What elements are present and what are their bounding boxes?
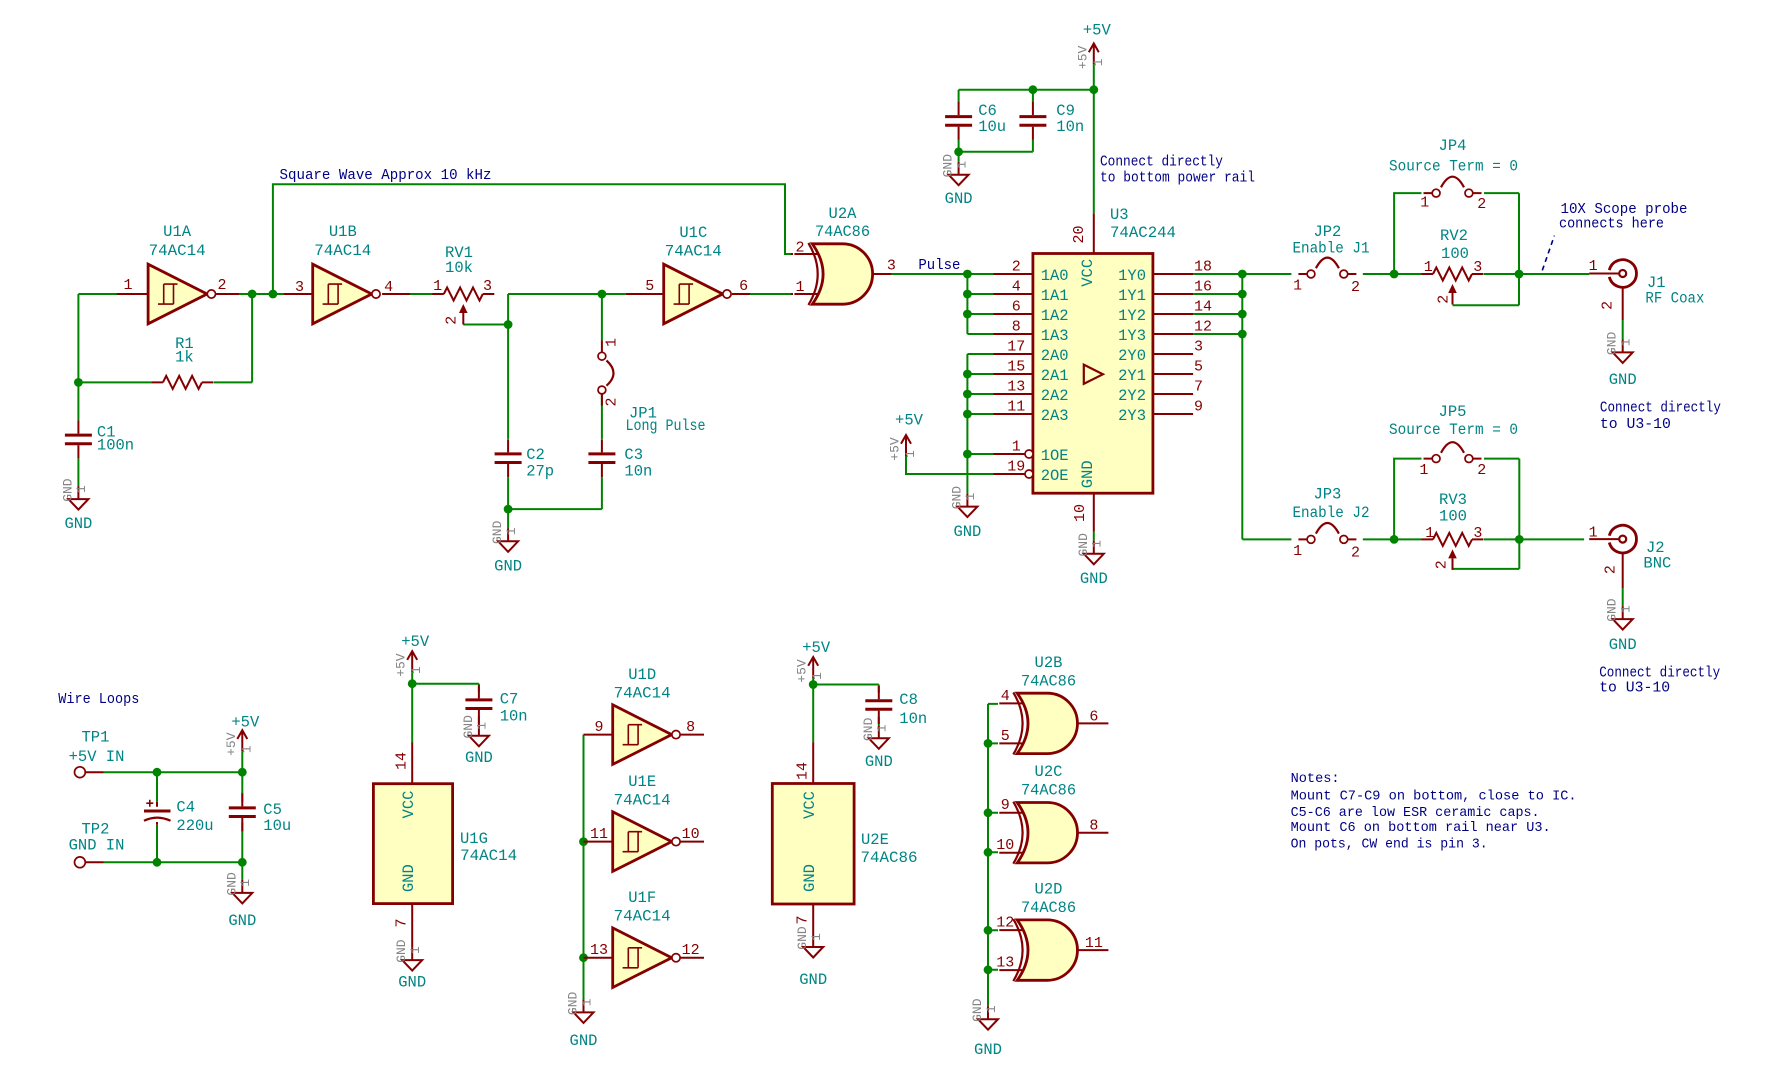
- svg-text:U3: U3: [1110, 206, 1129, 224]
- svg-text:U2B: U2B: [1035, 654, 1063, 672]
- svg-text:Pulse: Pulse: [918, 257, 960, 274]
- svg-text:13: 13: [590, 942, 608, 959]
- svg-text:GND: GND: [795, 926, 810, 950]
- svg-text:1: 1: [1293, 543, 1302, 560]
- svg-text:1: 1: [1589, 525, 1598, 542]
- svg-text:10k: 10k: [445, 259, 473, 277]
- svg-text:2: 2: [604, 397, 621, 406]
- svg-text:Mount C7-C9 on bottom, close t: Mount C7-C9 on bottom, close to IC.: [1291, 788, 1577, 804]
- svg-text:1: 1: [1619, 338, 1634, 346]
- svg-text:Mount C6 on bottom rail near U: Mount C6 on bottom rail near U3.: [1291, 820, 1551, 836]
- svg-text:U1C: U1C: [679, 224, 707, 242]
- svg-text:2: 2: [1351, 545, 1360, 562]
- svg-text:connects here: connects here: [1559, 215, 1664, 232]
- svg-text:10n: 10n: [1056, 118, 1084, 136]
- svg-text:7: 7: [795, 915, 812, 924]
- svg-text:3: 3: [1473, 525, 1482, 542]
- svg-text:100: 100: [1439, 508, 1467, 526]
- svg-text:Connect directly: Connect directly: [1100, 154, 1223, 171]
- svg-text:1: 1: [963, 493, 978, 501]
- svg-text:C7: C7: [500, 691, 519, 709]
- svg-text:1: 1: [1589, 258, 1598, 275]
- svg-text:20: 20: [1071, 225, 1088, 243]
- svg-text:1: 1: [984, 1005, 999, 1013]
- svg-text:1: 1: [433, 278, 442, 295]
- svg-text:13: 13: [1007, 379, 1025, 396]
- svg-text:GND: GND: [799, 971, 827, 989]
- svg-text:U1D: U1D: [628, 666, 656, 684]
- svg-text:17: 17: [1007, 339, 1025, 356]
- svg-text:GND: GND: [949, 486, 964, 510]
- svg-text:1: 1: [1419, 462, 1428, 479]
- svg-text:VCC: VCC: [400, 791, 418, 819]
- svg-text:1A2: 1A2: [1041, 307, 1069, 325]
- svg-text:3: 3: [1194, 339, 1203, 356]
- svg-text:GND: GND: [394, 939, 409, 963]
- svg-text:2OE: 2OE: [1041, 467, 1069, 485]
- svg-text:2A2: 2A2: [1041, 387, 1069, 405]
- svg-text:4: 4: [384, 279, 393, 296]
- svg-text:GND: GND: [1605, 598, 1620, 622]
- svg-text:2: 2: [217, 277, 226, 294]
- svg-text:GND: GND: [865, 753, 893, 771]
- svg-text:C5-C6 are low ESR ceramic caps: C5-C6 are low ESR ceramic caps.: [1291, 805, 1540, 821]
- svg-text:to U3-10: to U3-10: [1600, 416, 1671, 433]
- svg-text:1: 1: [409, 666, 424, 674]
- svg-text:+5V IN: +5V IN: [69, 748, 125, 766]
- svg-text:+5V: +5V: [401, 633, 430, 651]
- svg-text:10u: 10u: [263, 817, 291, 835]
- svg-text:GND: GND: [945, 190, 973, 208]
- svg-text:1: 1: [604, 338, 621, 347]
- svg-text:+5V: +5V: [895, 412, 924, 430]
- svg-text:GND: GND: [1609, 636, 1637, 654]
- svg-text:16: 16: [1194, 279, 1212, 296]
- svg-text:1: 1: [809, 933, 824, 941]
- svg-text:Square Wave Approx 10 kHz: Square Wave Approx 10 kHz: [280, 167, 492, 184]
- svg-text:GND: GND: [801, 864, 819, 892]
- svg-text:+5V: +5V: [795, 659, 810, 683]
- svg-text:7: 7: [394, 918, 411, 927]
- svg-text:12: 12: [1194, 319, 1212, 336]
- svg-text:8: 8: [1089, 818, 1098, 835]
- svg-text:GND: GND: [566, 992, 581, 1016]
- svg-text:8: 8: [1012, 319, 1021, 336]
- svg-text:U2E: U2E: [861, 831, 889, 849]
- svg-text:8: 8: [686, 719, 695, 736]
- svg-text:Enable J2: Enable J2: [1293, 504, 1370, 522]
- svg-text:JP5: JP5: [1439, 403, 1467, 421]
- svg-text:3: 3: [295, 279, 304, 296]
- svg-text:C8: C8: [899, 691, 918, 709]
- svg-text:3: 3: [1473, 259, 1482, 276]
- svg-text:1: 1: [954, 161, 969, 169]
- svg-text:1Y1: 1Y1: [1118, 287, 1146, 305]
- svg-text:2: 2: [1436, 295, 1453, 304]
- svg-text:74AC14: 74AC14: [614, 908, 671, 926]
- svg-text:GND: GND: [1076, 533, 1091, 557]
- svg-text:GND: GND: [1079, 460, 1097, 488]
- svg-text:VCC: VCC: [1079, 259, 1097, 287]
- svg-text:Source Term = 0: Source Term = 0: [1389, 421, 1518, 439]
- svg-text:1: 1: [1619, 605, 1634, 613]
- svg-text:100: 100: [1441, 245, 1469, 263]
- svg-text:2: 2: [1599, 301, 1616, 310]
- svg-text:10: 10: [682, 826, 700, 843]
- svg-text:1: 1: [810, 672, 825, 680]
- svg-text:5: 5: [1194, 359, 1203, 376]
- svg-text:1: 1: [1091, 58, 1106, 66]
- svg-text:C4: C4: [176, 799, 195, 817]
- svg-text:74AC86: 74AC86: [1021, 899, 1076, 917]
- svg-text:GND: GND: [974, 1041, 1002, 1059]
- svg-text:6: 6: [1012, 299, 1021, 316]
- svg-text:JP4: JP4: [1439, 137, 1467, 155]
- svg-text:13: 13: [996, 955, 1014, 972]
- svg-text:Connect directly: Connect directly: [1600, 400, 1721, 417]
- svg-text:2A0: 2A0: [1041, 347, 1069, 365]
- svg-text:7: 7: [1194, 379, 1203, 396]
- svg-text:3: 3: [483, 278, 492, 295]
- svg-text:1A3: 1A3: [1041, 327, 1069, 345]
- svg-text:+5V: +5V: [231, 714, 260, 732]
- svg-text:12: 12: [682, 942, 700, 959]
- svg-text:GND: GND: [1080, 570, 1108, 588]
- svg-text:GND: GND: [224, 872, 239, 896]
- svg-text:12: 12: [996, 915, 1014, 932]
- svg-text:1: 1: [1420, 195, 1429, 212]
- svg-text:3: 3: [887, 258, 896, 275]
- svg-text:1: 1: [239, 745, 254, 753]
- svg-text:1: 1: [579, 998, 594, 1006]
- svg-text:RV2: RV2: [1440, 227, 1468, 245]
- svg-text:GND: GND: [398, 974, 426, 992]
- svg-text:74AC14: 74AC14: [149, 242, 206, 260]
- svg-text:U2A: U2A: [829, 205, 858, 223]
- svg-text:9: 9: [1001, 797, 1010, 814]
- svg-text:GND: GND: [970, 998, 985, 1022]
- svg-text:2Y2: 2Y2: [1118, 387, 1146, 405]
- svg-text:27p: 27p: [526, 462, 554, 480]
- svg-text:2: 2: [1351, 279, 1360, 296]
- svg-text:U2C: U2C: [1035, 763, 1063, 781]
- svg-text:1: 1: [475, 722, 490, 730]
- svg-text:U1B: U1B: [329, 223, 357, 241]
- svg-text:19: 19: [1007, 459, 1025, 476]
- svg-text:2Y1: 2Y1: [1118, 367, 1146, 385]
- svg-text:11: 11: [590, 826, 608, 843]
- svg-text:10: 10: [996, 837, 1014, 854]
- svg-text:1: 1: [1090, 540, 1105, 548]
- svg-text:+5V: +5V: [394, 653, 409, 677]
- svg-text:4: 4: [1012, 279, 1021, 296]
- svg-text:On pots, CW end is pin 3.: On pots, CW end is pin 3.: [1291, 837, 1488, 853]
- svg-text:2: 2: [1012, 259, 1021, 276]
- svg-text:Enable J1: Enable J1: [1293, 240, 1370, 258]
- svg-text:1: 1: [408, 946, 423, 954]
- svg-text:GND: GND: [64, 515, 92, 533]
- svg-text:VCC: VCC: [801, 791, 819, 819]
- svg-text:GND: GND: [60, 478, 75, 502]
- svg-text:+5V: +5V: [224, 732, 239, 756]
- svg-text:74AC14: 74AC14: [314, 242, 371, 260]
- svg-text:5: 5: [1001, 728, 1010, 745]
- svg-text:14: 14: [795, 762, 812, 780]
- svg-text:1A0: 1A0: [1041, 267, 1069, 285]
- svg-text:1Y0: 1Y0: [1118, 267, 1146, 285]
- svg-text:74AC86: 74AC86: [1021, 782, 1076, 800]
- svg-text:Source Term = 0: Source Term = 0: [1389, 158, 1518, 176]
- svg-text:2: 2: [1434, 560, 1451, 569]
- svg-text:74AC14: 74AC14: [460, 847, 517, 865]
- svg-text:1: 1: [504, 527, 519, 535]
- svg-text:10n: 10n: [500, 708, 528, 726]
- svg-text:GND: GND: [400, 864, 418, 892]
- svg-text:11: 11: [1085, 935, 1103, 952]
- svg-text:GND: GND: [570, 1032, 598, 1050]
- svg-text:1: 1: [795, 279, 804, 296]
- svg-text:+5V: +5V: [888, 437, 903, 461]
- svg-text:74AC14: 74AC14: [665, 243, 722, 261]
- svg-text:GND: GND: [228, 912, 256, 930]
- svg-text:GND: GND: [494, 558, 522, 576]
- svg-text:GND: GND: [465, 749, 493, 767]
- svg-text:74AC86: 74AC86: [1021, 672, 1076, 690]
- svg-text:74AC86: 74AC86: [815, 223, 870, 241]
- svg-text:1Y2: 1Y2: [1118, 307, 1146, 325]
- svg-text:GND: GND: [490, 520, 505, 544]
- svg-text:6: 6: [739, 278, 748, 295]
- svg-text:GND: GND: [1609, 371, 1637, 389]
- svg-text:GND: GND: [1605, 332, 1620, 356]
- svg-text:U1A: U1A: [163, 223, 192, 241]
- svg-text:2: 2: [1477, 196, 1486, 213]
- svg-text:1: 1: [123, 277, 132, 294]
- svg-text:RV3: RV3: [1439, 491, 1467, 509]
- svg-text:to bottom power rail: to bottom power rail: [1100, 170, 1255, 187]
- svg-text:1OE: 1OE: [1041, 447, 1069, 465]
- svg-text:11: 11: [1007, 399, 1025, 416]
- svg-text:+5V: +5V: [1075, 46, 1090, 70]
- svg-text:GND: GND: [953, 523, 981, 541]
- svg-text:74AC244: 74AC244: [1110, 224, 1176, 242]
- svg-text:1: 1: [903, 450, 918, 458]
- svg-text:10: 10: [1072, 504, 1089, 522]
- svg-text:1: 1: [74, 485, 89, 493]
- svg-text:4: 4: [1001, 688, 1010, 705]
- svg-text:14: 14: [1194, 299, 1212, 316]
- svg-text:1: 1: [1425, 525, 1434, 542]
- svg-text:RF Coax: RF Coax: [1645, 289, 1704, 307]
- svg-text:Long Pulse: Long Pulse: [626, 417, 706, 435]
- svg-text:GND: GND: [461, 715, 476, 739]
- svg-text:10n: 10n: [899, 710, 927, 728]
- svg-text:2Y3: 2Y3: [1118, 407, 1146, 425]
- svg-text:BNC: BNC: [1643, 555, 1671, 573]
- svg-text:Notes:: Notes:: [1291, 771, 1340, 787]
- svg-text:JP2: JP2: [1313, 223, 1341, 241]
- svg-text:1A1: 1A1: [1041, 287, 1069, 305]
- svg-text:2Y0: 2Y0: [1118, 347, 1146, 365]
- svg-text:U1E: U1E: [628, 773, 656, 791]
- svg-text:100n: 100n: [97, 436, 134, 454]
- svg-text:74AC14: 74AC14: [614, 792, 671, 810]
- svg-text:18: 18: [1194, 259, 1212, 276]
- svg-text:2: 2: [1477, 462, 1486, 479]
- svg-text:2: 2: [1602, 565, 1619, 574]
- svg-text:1: 1: [1012, 439, 1021, 456]
- svg-text:+5V: +5V: [1083, 22, 1112, 40]
- svg-text:1: 1: [875, 724, 890, 732]
- svg-text:74AC14: 74AC14: [614, 685, 671, 703]
- svg-text:GND IN: GND IN: [69, 837, 125, 855]
- svg-text:GND: GND: [861, 717, 876, 741]
- svg-text:74AC86: 74AC86: [861, 849, 918, 867]
- svg-text:1: 1: [238, 879, 253, 887]
- svg-text:+5V: +5V: [802, 639, 831, 657]
- svg-text:1: 1: [1424, 259, 1433, 276]
- svg-text:9: 9: [594, 719, 603, 736]
- svg-text:U1G: U1G: [460, 830, 488, 848]
- svg-text:2: 2: [795, 240, 804, 257]
- svg-text:5: 5: [645, 278, 654, 295]
- svg-text:14: 14: [394, 752, 411, 770]
- svg-text:10n: 10n: [624, 462, 652, 480]
- svg-text:2A1: 2A1: [1041, 367, 1069, 385]
- svg-text:JP3: JP3: [1313, 486, 1341, 504]
- svg-text:1Y3: 1Y3: [1118, 327, 1146, 345]
- svg-text:10u: 10u: [978, 118, 1006, 136]
- svg-text:Wire Loops: Wire Loops: [58, 691, 139, 708]
- svg-text:15: 15: [1007, 359, 1025, 376]
- svg-text:2A3: 2A3: [1041, 407, 1069, 425]
- svg-text:1: 1: [1293, 278, 1302, 295]
- svg-text:U1F: U1F: [628, 889, 656, 907]
- svg-text:U2D: U2D: [1035, 881, 1063, 899]
- svg-text:9: 9: [1194, 399, 1203, 416]
- svg-text:2: 2: [443, 316, 460, 325]
- svg-text:1k: 1k: [175, 349, 194, 367]
- svg-text:GND: GND: [941, 154, 956, 178]
- svg-text:TP1: TP1: [82, 728, 110, 746]
- svg-text:6: 6: [1089, 708, 1098, 725]
- svg-text:to U3-10: to U3-10: [1599, 680, 1670, 697]
- svg-text:220u: 220u: [176, 817, 213, 835]
